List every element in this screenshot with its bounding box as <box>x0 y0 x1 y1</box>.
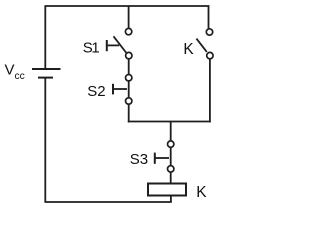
battery Vcc <box>32 69 61 78</box>
wire top bus <box>45 5 210 7</box>
wire K branch stub from top bus <box>208 6 210 29</box>
svg-text:K: K <box>196 184 207 201</box>
svg-text:S3: S3 <box>130 151 148 168</box>
wire junction bus to S3 <box>170 122 172 141</box>
switch K <box>196 29 213 59</box>
wire S1 branch stub from top bus <box>128 6 130 28</box>
wire bottom bus <box>45 201 172 203</box>
svg-text:S2: S2 <box>87 83 105 100</box>
switch S1 <box>107 28 132 58</box>
svg-text:S1: S1 <box>83 40 100 57</box>
svg-text:K: K <box>183 41 194 58</box>
wire junction bus <box>128 121 211 123</box>
wire relay coil to bottom bus <box>170 196 172 203</box>
svg-text:Vcc: Vcc <box>5 61 25 82</box>
wire K to junction bus <box>209 59 211 123</box>
wire left vertical from top bus to battery <box>44 6 46 68</box>
switch S2 <box>113 75 132 105</box>
wire S1 to S2 <box>128 59 130 75</box>
relay coil K <box>148 184 186 196</box>
switch S3 <box>155 141 174 172</box>
wire S3 to relay coil <box>170 172 172 183</box>
wire S2 to junction bus <box>128 104 130 122</box>
wire left vertical from battery to bottom bus <box>44 79 46 203</box>
